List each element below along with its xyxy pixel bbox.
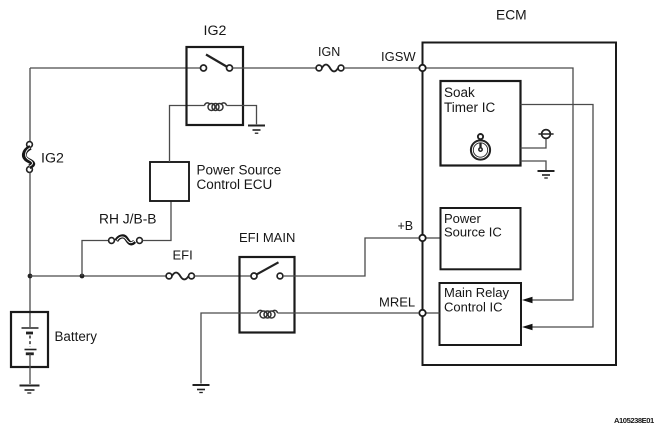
relay IG2 box xyxy=(187,47,244,125)
svg-text:Timer IC: Timer IC xyxy=(444,100,495,115)
node +B terminal xyxy=(419,235,425,241)
svg-text:Battery: Battery xyxy=(55,329,98,344)
relay EFI MAIN box xyxy=(240,257,295,333)
svg-text:IGSW: IGSW xyxy=(381,49,416,64)
arrowhead into Main Relay Control IC (upper) xyxy=(522,297,533,304)
junction dot: RH J/B-B branch xyxy=(80,274,85,279)
wire: soak timer output to Main Relay Control IC (with corner) xyxy=(521,105,594,328)
wire: soak timer to ground xyxy=(521,161,547,170)
svg-text:+B: +B xyxy=(398,219,414,233)
wire: EFI fuse to EFI MAIN relay xyxy=(194,275,251,277)
svg-text:Soak: Soak xyxy=(444,85,475,100)
wire: IGSW into ECM to Main Relay Control IC (with corner) xyxy=(426,68,573,300)
svg-text:EFI: EFI xyxy=(173,248,193,263)
svg-text:Main Relay: Main Relay xyxy=(444,285,510,300)
ground (soak timer) xyxy=(538,171,555,178)
fuse IGN xyxy=(316,65,344,72)
svg-text:MREL: MREL xyxy=(379,295,415,310)
box: Soak Timer IC xyxy=(441,81,521,166)
wire: EFI row horizontal (junction to EFI fuse) xyxy=(30,275,166,277)
wire: IGN fuse to IGSW terminal xyxy=(344,67,419,69)
relay IG2 switch arm xyxy=(206,55,227,67)
wire: EFI MAIN coil left to ground xyxy=(201,313,258,384)
wire: left vertical battery feed (lower part, link to battery) xyxy=(29,173,31,328)
relay IG2 switch contacts xyxy=(201,65,207,71)
wire: RH J/B-B branch vertical xyxy=(82,241,109,277)
svg-text:Power Source: Power Source xyxy=(197,163,282,178)
fusible link RH J/B-B (horizontal) xyxy=(109,236,143,243)
box: ECM xyxy=(423,43,617,366)
svg-text:Source IC: Source IC xyxy=(444,224,502,239)
svg-text:IGN: IGN xyxy=(318,45,340,59)
relay EFI MAIN switch arm xyxy=(257,262,279,274)
svg-text:IG2: IG2 xyxy=(204,23,227,39)
fuse EFI xyxy=(166,273,194,280)
battery box xyxy=(11,312,48,367)
node IGSW terminal xyxy=(419,65,425,71)
svg-text:ECM: ECM xyxy=(496,8,527,23)
ground (EFI MAIN coil) xyxy=(193,385,210,393)
svg-text:EFI MAIN: EFI MAIN xyxy=(239,230,295,245)
power symbol (circle with bar) xyxy=(538,130,553,139)
box: Power Source IC xyxy=(441,208,521,269)
wire: IG2 coil to ground xyxy=(227,106,257,125)
wire: left vertical battery feed (upper part, to IG2 fusible link) xyxy=(29,68,31,142)
wire: RH link to Power Source Control ECU xyxy=(143,202,172,241)
wire: top horizontal from battery feed corner to IG2 relay xyxy=(30,67,201,69)
ground (IG2 relay coil) xyxy=(248,126,265,134)
svg-text:RH J/B-B: RH J/B-B xyxy=(99,212,157,227)
relay EFI MAIN coil xyxy=(258,310,278,318)
arrowhead into Main Relay Control IC (lower) xyxy=(522,324,533,331)
svg-text:A105238E01: A105238E01 xyxy=(614,416,655,425)
icon: soak timer stopwatch xyxy=(471,134,490,160)
wire: +B node to Power Source IC xyxy=(426,237,440,239)
svg-text:Control IC: Control IC xyxy=(444,300,503,315)
svg-text:Control ECU: Control ECU xyxy=(197,177,273,192)
svg-text:IG2: IG2 xyxy=(41,151,64,167)
wire: EFI MAIN switch to +B xyxy=(283,238,419,276)
wire: Power Source Control ECU to IG2 relay coil xyxy=(170,106,205,163)
wire: soak timer to power symbol xyxy=(521,139,547,148)
battery cell plates xyxy=(22,328,39,354)
wire: IG2 relay to IGN fuse xyxy=(233,67,317,69)
junction dot: battery feed / EFI row xyxy=(28,274,33,279)
node MREL terminal xyxy=(419,310,425,316)
wire: battery negative to ground xyxy=(29,354,31,384)
box: Main Relay Control IC xyxy=(440,283,522,345)
box: Power Source Control ECU xyxy=(150,162,189,201)
relay EFI MAIN switch contacts xyxy=(251,273,257,279)
wire: MREL node to Main Relay Control IC xyxy=(426,312,440,314)
fusible link IG2 (vertical) xyxy=(24,142,33,173)
wire: EFI MAIN coil right to MREL xyxy=(278,312,420,314)
ground (battery) xyxy=(20,386,40,394)
relay IG2 coil xyxy=(205,103,227,111)
